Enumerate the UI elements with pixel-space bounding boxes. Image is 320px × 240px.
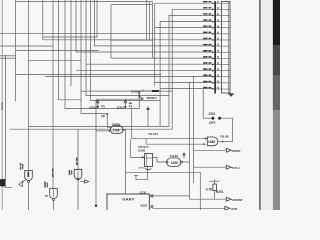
gate B output (183, 161, 190, 163)
wire (15, 0, 17, 101)
wire gateA output (122, 129, 124, 131)
wire (76, 0, 214, 52)
wire (10, 128, 173, 130)
svg-text:1488: 1488 (171, 161, 178, 165)
wire (95, 99, 97, 205)
wire (52, 0, 54, 189)
connector pin row 3 (203, 13, 230, 16)
test point TP (101, 113, 111, 127)
svg-text:ATN: ATN (231, 207, 238, 210)
wire (81, 90, 172, 92)
wire (189, 83, 191, 200)
right dark band (273, 0, 280, 210)
right scan border line (259, 0, 260, 210)
ground (228, 93, 235, 97)
connector pin row 6 (203, 32, 230, 35)
lower input stub (138, 167, 145, 169)
connector pin row 15 (203, 87, 230, 90)
top long wire (16, 1, 153, 3)
inverter gate G1 74LS06 (44, 169, 57, 211)
svg-text:STL1: STL1 (232, 166, 240, 170)
wire (29, 126, 169, 128)
wire pin2 (172, 9, 214, 129)
svg-text:E301: E301 (117, 105, 124, 109)
wire (5, 55, 12, 188)
left scan edge (2, 0, 3, 210)
svg-text:J201: J201 (208, 112, 215, 116)
wire (91, 0, 161, 100)
wire (111, 39, 153, 41)
connector J201 (203, 112, 232, 141)
wire (110, 5, 112, 59)
resistor R201 4.7K (206, 179, 224, 199)
connector pin row 2 (203, 7, 230, 10)
wire (0, 45, 53, 47)
wire pin3 (169, 15, 214, 126)
wire pin6 (0, 33, 214, 35)
wire pin11 (86, 63, 214, 65)
wire (81, 113, 107, 115)
wire pin5 (155, 27, 215, 29)
connector pin row 12 (203, 68, 230, 71)
wire (146, 139, 206, 145)
wire pin7 (43, 39, 214, 41)
svg-text:1488: 1488 (208, 140, 215, 144)
wire (95, 0, 215, 46)
wire pin14 (155, 82, 215, 84)
AND gate U302 74F08 (96, 122, 123, 133)
left edge blob (0, 179, 6, 187)
connector pin row 9 (203, 50, 230, 53)
wire (111, 57, 214, 59)
svg-text:4.7K: 4.7K (206, 187, 213, 191)
capacitor-ish below (145, 169, 151, 170)
connector pin row 8 (203, 44, 230, 47)
wire staircase to gate A (59, 0, 82, 100)
svg-text:74LS74: 74LS74 (148, 132, 159, 136)
pennant lower-left (23, 180, 26, 183)
wire pin1 (155, 2, 215, 4)
svg-text:U305: U305 (138, 148, 146, 152)
svg-text:KBD: KBD (141, 203, 148, 207)
svg-text:Tx: Tx (101, 105, 105, 109)
svg-text:GARY: GARY (122, 197, 135, 202)
flipflop output to gate B (153, 157, 169, 162)
wire (16, 74, 161, 76)
BRST flag (194, 148, 241, 153)
svg-text:OPT.: OPT. (209, 121, 216, 125)
wire (145, 0, 147, 40)
svg-text:E303: E303 (131, 89, 138, 93)
connector pin row 5 (203, 25, 230, 28)
wire (154, 3, 156, 86)
svg-text:E302: E302 (90, 105, 97, 109)
wire pin4 (160, 22, 214, 127)
wire E-line (96, 98, 144, 100)
STL1 flag (194, 165, 241, 170)
wire (193, 76, 195, 183)
inverter gate G0 74LS06 (19, 163, 33, 210)
wire gateC in1 (205, 137, 207, 139)
connector pin row 7 (203, 38, 230, 41)
gate U303 1488 (167, 154, 183, 166)
svg-text:XBRST: XBRST (232, 198, 243, 202)
small flag to right (80, 181, 85, 183)
svg-text:2N3904: 2N3904 (147, 96, 158, 100)
input wire (130, 139, 144, 157)
connector pin row 1 (203, 1, 230, 4)
connector pin row 11 (203, 62, 230, 65)
wire (42, 0, 44, 40)
+5V arrow upper (146, 106, 150, 126)
svg-text:74L36: 74L36 (170, 154, 179, 158)
wire (0, 55, 16, 57)
wire from E-line down to flipflop area (132, 109, 207, 139)
connector pin row 10 (203, 56, 230, 59)
wire (152, 2, 154, 59)
connector bar (214, 1, 216, 93)
wire (202, 89, 204, 119)
ATN flag (153, 206, 238, 211)
test point E302 (90, 99, 105, 109)
wire (43, 0, 97, 37)
hook (136, 176, 148, 180)
wire (86, 0, 169, 96)
flip-flop U305 74LS74 (130, 132, 158, 180)
connector pin row 14 (203, 81, 230, 84)
wire (65, 0, 139, 109)
connector body ladder (222, 2, 231, 94)
wire (29, 60, 81, 62)
wire (28, 0, 30, 171)
wire pin15 to J201 (160, 88, 214, 90)
wire pin13 (45, 75, 214, 77)
svg-text:CCK: CCK (140, 191, 147, 195)
gate C output to BRST line (218, 141, 233, 143)
test point E301 (117, 99, 132, 109)
+5V arrow at gate B (183, 152, 186, 159)
connector pin row 4 (203, 19, 230, 22)
IC GARY (107, 191, 190, 211)
AND gate U304 74LS08 (207, 135, 228, 146)
inverter gate G2 74LS06 (69, 129, 89, 210)
wire (149, 2, 151, 41)
connector pin row 13 (203, 74, 230, 77)
svg-text:R201: R201 (216, 190, 224, 194)
page background (0, 0, 280, 210)
wire (111, 4, 153, 6)
svg-text:1488: 1488 (113, 128, 120, 132)
transistor Q301 (129, 89, 160, 108)
svg-text:74F08: 74F08 (112, 122, 121, 126)
svg-text:74L08: 74L08 (220, 135, 229, 139)
wire (16, 50, 99, 52)
wire pin12 (76, 69, 214, 71)
wire (0, 57, 16, 59)
svg-text:Tx: Tx (129, 105, 133, 109)
wire (70, 0, 72, 86)
right margin gray (261, 0, 273, 210)
XBRST flag (190, 197, 243, 202)
wire (126, 172, 201, 210)
svg-text:BRST: BRST (232, 149, 241, 153)
wire (80, 0, 82, 114)
